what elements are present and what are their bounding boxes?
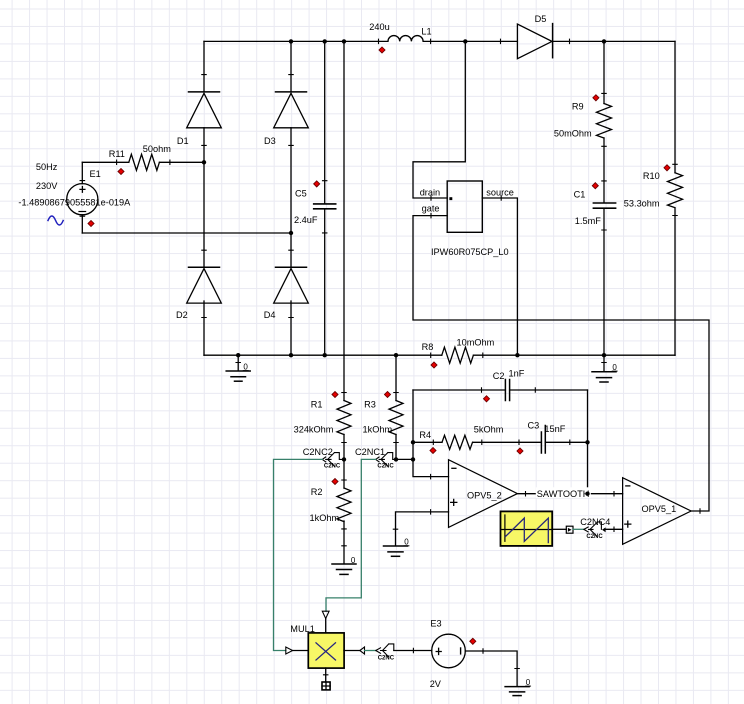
source wire to rail (482, 198, 517, 355)
svg-text:324kOhm: 324kOhm (294, 424, 334, 434)
MUL1 left input arrow (286, 647, 308, 654)
diode D1 (177, 92, 221, 146)
svg-text:1.5mF: 1.5mF (575, 216, 601, 226)
svg-text:R2: R2 (311, 487, 323, 497)
svg-text:D4: D4 (264, 310, 276, 320)
svg-text:R9: R9 (572, 102, 584, 112)
capacitor C5 (294, 41, 336, 355)
opamp OPV5_1 (623, 478, 692, 545)
resistor R9 (554, 41, 612, 202)
ground rail bottom (204, 354, 675, 356)
svg-text:240u: 240u (369, 22, 389, 32)
svg-text:C2NC4: C2NC4 (580, 517, 610, 527)
wire R3 bottom to node (395, 435, 397, 460)
svg-text:C2NC: C2NC (378, 655, 395, 661)
wire R3 top to rail (395, 355, 397, 400)
wire E1 bottom pin (81, 215, 83, 233)
ground symbol bridge (226, 355, 250, 381)
svg-text:source: source (486, 187, 514, 197)
svg-text:5kOhm: 5kOhm (474, 425, 504, 435)
wire R3 node to opamp column (396, 458, 413, 460)
svg-text:10mOhm: 10mOhm (457, 337, 495, 347)
svg-text:15nF: 15nF (544, 424, 565, 434)
svg-text:D1: D1 (177, 136, 189, 146)
svg-text:R3: R3 (364, 399, 376, 409)
svg-text:R1: R1 (311, 399, 323, 409)
ground under E3 (505, 678, 531, 696)
diode D2 (176, 267, 221, 320)
svg-text:gate: gate (422, 204, 440, 214)
svg-text:SAWTOOTH: SAWTOOTH (537, 489, 590, 499)
resistor R1 (294, 399, 351, 434)
ground under R2 (332, 556, 356, 575)
wire bridge left column with D1 D2 (203, 41, 205, 355)
mosfet U1 IPW60R075CP_L0 (420, 181, 514, 257)
svg-text:1kOhm: 1kOhm (363, 424, 393, 434)
wire R11 to bridge (159, 161, 204, 163)
resistor R8 (422, 337, 495, 363)
wire E1 bottom to bridge right column (82, 232, 291, 234)
wire input sense column top (343, 41, 345, 400)
svg-text:0: 0 (612, 363, 617, 372)
capacitor C1 (574, 190, 616, 356)
wire E1 to R11 (82, 161, 129, 163)
opamp input column (413, 390, 449, 477)
svg-text:C2NC2: C2NC2 (303, 447, 333, 457)
pin ticks horizontal wires (117, 39, 700, 653)
svg-text:R4: R4 (419, 430, 431, 440)
svg-text:50mOhm: 50mOhm (554, 128, 592, 138)
svg-text:1nF: 1nF (509, 369, 525, 379)
svg-text:OPV5_1: OPV5_1 (642, 504, 677, 514)
resistor R11 (109, 144, 172, 171)
svg-text:D5: D5 (535, 14, 547, 24)
opamp OPV5_2 (449, 460, 518, 528)
svg-text:drain: drain (420, 187, 440, 197)
svg-text:R11: R11 (109, 149, 125, 159)
wire opamp2 plus to ground (396, 512, 449, 546)
drain feed wire from top rail (413, 41, 465, 198)
multiplier MUL1 (290, 624, 344, 668)
ground under opamp2 (384, 538, 410, 557)
svg-text:50Hz: 50Hz (36, 162, 58, 172)
svg-text:D2: D2 (176, 310, 188, 320)
svg-text:C5: C5 (295, 189, 307, 199)
MUL1 output arrow (344, 647, 365, 654)
svg-text:E1: E1 (90, 169, 101, 179)
wire sawtooth node (517, 493, 622, 495)
wire R1 to R2 (343, 435, 345, 489)
MUL1 bottom terminal (322, 668, 330, 690)
teal net vin sense to MUL1 (274, 459, 323, 650)
svg-text:C2NC1: C2NC1 (355, 447, 385, 457)
svg-text:0: 0 (404, 538, 409, 547)
wire E1 top pin (81, 162, 83, 183)
teal link C2NC4 (573, 528, 584, 530)
svg-text:1kOhm: 1kOhm (310, 513, 340, 523)
wire bridge right column with D3 D4 (290, 41, 292, 355)
svg-text:2V: 2V (430, 679, 442, 689)
svg-text:D3: D3 (264, 136, 276, 146)
svg-text:230V: 230V (36, 181, 58, 191)
svg-text:2.4uF: 2.4uF (294, 215, 318, 225)
diode D5 (517, 14, 552, 59)
svg-text:E3: E3 (430, 619, 441, 629)
probe square symbol (566, 526, 573, 533)
svg-text:C2NC: C2NC (324, 463, 341, 469)
svg-text:C1: C1 (574, 190, 586, 200)
diode D4 (264, 267, 309, 320)
wire top rail left segment (204, 40, 379, 42)
svg-text:50ohm: 50ohm (143, 144, 171, 154)
gate feedback wire (413, 216, 709, 511)
svg-text:MUL1: MUL1 (290, 624, 315, 634)
MUL1 top input arrow (322, 611, 329, 632)
svg-text:C2NC: C2NC (377, 463, 394, 469)
resistor R10 (624, 41, 683, 355)
voltage source E1 (18, 162, 131, 215)
wire sawtooth box to probe square (552, 528, 566, 530)
teal net current sense to MUL1 top (326, 459, 376, 611)
probe diamonds (88, 47, 670, 644)
wire D5 to top-right corner (553, 40, 675, 42)
svg-text:OPV5_2: OPV5_2 (467, 490, 502, 500)
resistor R2 (310, 487, 352, 523)
wire R2 to ground (343, 521, 345, 564)
svg-text:R10: R10 (643, 171, 660, 181)
diode D3 (264, 92, 308, 146)
voltage source E3 (430, 619, 466, 690)
capacitor C2 (413, 369, 588, 401)
svg-text:C2NC: C2NC (586, 534, 603, 540)
svg-text:53.3ohm: 53.3ohm (624, 199, 660, 209)
wire E3 to ground (465, 651, 517, 686)
connector C2NC4 (580, 517, 610, 540)
svg-text:C3: C3 (528, 420, 540, 430)
connector C2NC1 (355, 447, 396, 469)
svg-text:0: 0 (351, 556, 356, 565)
inductor L1 (369, 22, 431, 41)
svg-text:L1: L1 (421, 26, 431, 36)
wire C2NC4 to opamp1 plus (606, 528, 623, 530)
svg-text:0: 0 (243, 362, 248, 371)
connector C2NC3 (376, 644, 395, 661)
sawtooth source box (501, 511, 553, 546)
teal link MUL1 output (365, 650, 376, 652)
pin ticks vertical wires (80, 75, 677, 675)
resistor R3 (363, 399, 404, 434)
wire connector to E3 (394, 650, 432, 652)
svg-text:-1.48908679055581e-019A: -1.48908679055581e-019A (18, 198, 131, 208)
svg-text:0: 0 (526, 678, 531, 687)
svg-text:IPW60R075CP_L0: IPW60R075CP_L0 (431, 247, 509, 257)
svg-text:R8: R8 (422, 342, 434, 352)
feedback column right (587, 390, 589, 494)
capacitor C3 (528, 420, 588, 453)
wire L1 to D5 (431, 40, 518, 42)
sine symbol of E1 (48, 216, 63, 225)
ground symbol main (592, 355, 617, 382)
svg-text:C2: C2 (493, 371, 505, 381)
connector C2NC2 (303, 447, 344, 469)
resistor R4 (413, 425, 541, 450)
